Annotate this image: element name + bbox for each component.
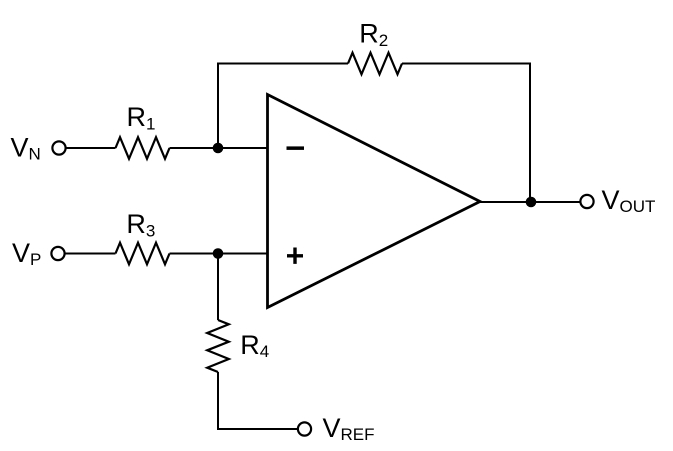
wire: feedback drop to output node	[529, 63, 531, 203]
wire: V_N lead to R1	[66, 147, 116, 149]
resistor R1	[116, 137, 170, 159]
terminal V_REF	[298, 422, 311, 435]
wire: feedback riser from node A	[217, 64, 219, 149]
wire: op-amp output	[480, 201, 580, 203]
wire: top rail right of R2	[402, 63, 530, 65]
wire: R1 to inverting input	[170, 147, 268, 149]
terminal V_OUT	[580, 195, 593, 208]
wire: R3 to non-inverting input	[170, 253, 268, 255]
wire: bottom rail to V_REF terminal	[217, 428, 298, 430]
resistor R4	[207, 320, 229, 372]
node B junction (non-inverting input)	[213, 248, 224, 259]
resistor R3	[116, 243, 170, 265]
wire: top rail left of R2	[217, 63, 348, 65]
op-amp minus input marker	[287, 146, 305, 150]
wire: R4 down to V_REF rail	[217, 372, 219, 430]
terminal V_N	[52, 141, 65, 154]
wire: node B down to R4	[217, 254, 219, 321]
wire: V_P lead to R3	[65, 253, 116, 255]
node OUT junction	[526, 197, 537, 208]
op-amp plus input marker	[287, 248, 303, 264]
node A junction (inverting input)	[213, 143, 224, 154]
resistor R2	[348, 53, 402, 75]
op-amp U1	[268, 95, 481, 308]
terminal V_P	[51, 247, 64, 260]
